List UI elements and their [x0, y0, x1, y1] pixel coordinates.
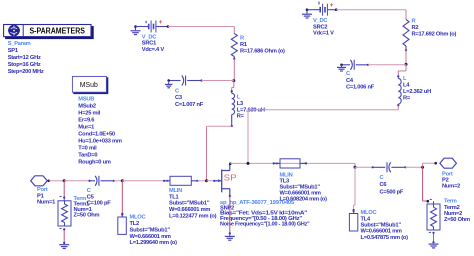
- svg-text:Stop=16 GHz: Stop=16 GHz: [8, 62, 41, 68]
- svg-text:C: C: [346, 71, 350, 77]
- svg-text:L3: L3: [237, 101, 243, 107]
- svg-text:SP1: SP1: [8, 48, 18, 54]
- svg-text:Num=2: Num=2: [442, 183, 460, 189]
- svg-text:C3: C3: [175, 95, 182, 101]
- capacitor C6: [372, 166, 374, 168]
- wire junction to FET gate: [207, 180, 215, 182]
- svg-text:R=17.692 Ohm (o): R=17.692 Ohm (o): [412, 32, 457, 38]
- wire C4 to node: [368, 64, 406, 66]
- inductor L4: [397, 75, 399, 77]
- svg-text:+: +: [159, 19, 163, 26]
- svg-text:Num=2: Num=2: [444, 211, 462, 217]
- microstrip line TL1: [163, 180, 165, 182]
- wire down to Term2: [422, 167, 424, 201]
- svg-text:C: C: [175, 88, 179, 94]
- svg-text:Hu=1.0e+033 mm: Hu=1.0e+033 mm: [78, 138, 122, 144]
- svg-text:C=1.007 nF: C=1.007 nF: [175, 102, 204, 108]
- svg-text:MSUB: MSUB: [78, 96, 94, 102]
- svg-text:TL2: TL2: [130, 221, 140, 227]
- svg-text:R=: R=: [237, 114, 245, 120]
- transistor SNP2 FET symbol: [213, 180, 215, 182]
- svg-text:S-PARAMETERS: S-PARAMETERS: [29, 25, 85, 35]
- svg-text:W=0.666001 mm: W=0.666001 mm: [130, 234, 171, 240]
- svg-text:L: L: [403, 76, 407, 82]
- junction Term2 tap: [421, 166, 424, 169]
- MSub substrate box: [74, 78, 108, 94]
- wire down to TL4: [354, 167, 356, 205]
- svg-text:C=1.006 nF: C=1.006 nF: [346, 85, 375, 91]
- junction gate bias join: [205, 179, 208, 182]
- svg-text:L: L: [237, 95, 241, 101]
- svg-text:L=0.122477 mm (o): L=0.122477 mm (o): [169, 213, 217, 219]
- wire node to L4 with jog: [405, 64, 407, 71]
- svg-text:Start=12 GHz: Start=12 GHz: [8, 55, 41, 61]
- V_DC source SRC2 battery: [306, 8, 309, 11]
- V_DC source SRC1 battery: [134, 25, 137, 28]
- svg-text:Vdc=1 V: Vdc=1 V: [313, 31, 334, 37]
- svg-text:+: +: [330, 2, 334, 9]
- open stub TL2: [121, 213, 123, 215]
- svg-text:TanD=0: TanD=0: [78, 152, 97, 158]
- svg-text:C=100 pF: C=100 pF: [87, 201, 111, 207]
- wire FET drain rail: [229, 162, 232, 165]
- svg-text:R2: R2: [412, 25, 419, 31]
- wire node to L3: [233, 81, 235, 88]
- ground for Term2: [429, 243, 439, 245]
- ground for SRC2: [306, 10, 308, 14]
- terminal Term1: [60, 195, 62, 197]
- svg-text:L=2.362 uH: L=2.362 uH: [403, 89, 431, 95]
- svg-text:W=0.666001 mm: W=0.666001 mm: [169, 207, 210, 213]
- svg-text:Subst="MSub1": Subst="MSub1": [130, 227, 171, 233]
- svg-text:Num=1: Num=1: [37, 200, 55, 206]
- svg-text:MSub2: MSub2: [78, 103, 96, 109]
- svg-text:Z=50 Ohm: Z=50 Ohm: [74, 213, 100, 219]
- port P2: [440, 158, 457, 168]
- svg-text:C: C: [87, 188, 91, 194]
- junction TL2 tap: [121, 179, 124, 182]
- junction Term1 tap: [63, 179, 66, 182]
- svg-text:R1: R1: [240, 42, 247, 48]
- svg-text:H=25 mil: H=25 mil: [78, 110, 100, 116]
- S-PARAMETERS simulation controller box: [6, 27, 94, 39]
- ground for SRC1: [135, 27, 137, 31]
- svg-text:Z=50 Ohm: Z=50 Ohm: [444, 217, 470, 223]
- open stub TL4: [353, 209, 355, 211]
- svg-text:Subst="MSub1": Subst="MSub1": [169, 201, 210, 207]
- wire C6 to output junction: [405, 166, 422, 168]
- svg-text:V_DC: V_DC: [142, 34, 156, 40]
- svg-text:R: R: [412, 18, 416, 24]
- ground for Term1: [59, 244, 69, 246]
- svg-text:Term2: Term2: [444, 205, 460, 211]
- svg-text:P1: P1: [37, 193, 44, 199]
- svg-text:C5: C5: [87, 194, 94, 200]
- svg-text:TL4: TL4: [361, 216, 372, 222]
- svg-text:L=1.299640 mm (o): L=1.299640 mm (o): [130, 240, 178, 246]
- svg-text:C=500 pF: C=500 pF: [380, 189, 404, 195]
- wire C3 to node: [202, 80, 234, 82]
- inductor L3: [231, 90, 233, 92]
- svg-text:Noise Frequency="[1.00 - 18.00: Noise Frequency="[1.00 - 18.00) GHz": [220, 222, 310, 228]
- resistor R1: [231, 34, 237, 57]
- wire SRC2 to R2: [336, 9, 406, 11]
- svg-text:L4: L4: [403, 83, 410, 89]
- svg-text:V_DC: V_DC: [313, 18, 327, 24]
- svg-text:W=0.666001 mm: W=0.666001 mm: [361, 229, 402, 235]
- svg-text:S_Param: S_Param: [8, 41, 31, 47]
- capacitor C4 with ground: [342, 64, 351, 66]
- bias feed wire L4 to drain rail: [397, 105, 399, 110]
- microstrip line TL3: [273, 162, 275, 164]
- wire C5 to TL2 junction: [114, 180, 123, 182]
- ground for FET source: [229, 233, 231, 236]
- wire junction to port P2: [422, 163, 424, 167]
- svg-text:R: R: [240, 35, 244, 41]
- wire down to Term1: [63, 181, 65, 197]
- svg-text:MSub: MSub: [80, 82, 98, 89]
- svg-text:Subst="MSub1": Subst="MSub1": [361, 223, 402, 229]
- svg-text:MLOC: MLOC: [130, 215, 146, 221]
- wire junction to C5: [64, 180, 89, 182]
- svg-text:C: C: [380, 175, 384, 181]
- svg-text:C4: C4: [346, 78, 354, 84]
- wire P1 to junction: [49, 180, 64, 182]
- capacitor C3 with ground: [169, 80, 181, 82]
- svg-text:SRC1: SRC1: [142, 41, 156, 47]
- wire Term2 to ground: [433, 233, 435, 242]
- svg-text:L=0.547875 mm (o): L=0.547875 mm (o): [361, 235, 409, 241]
- wire junction to C6: [355, 166, 373, 168]
- svg-text:TL1: TL1: [169, 194, 179, 200]
- node junction R2/C4/L4: [405, 63, 408, 66]
- svg-text:Vdc=.4 V: Vdc=.4 V: [142, 47, 165, 53]
- svg-text:L=0.608204 mm (o): L=0.608204 mm (o): [280, 197, 328, 203]
- svg-text:T=0 mil: T=0 mil: [78, 145, 97, 151]
- wire TL1 to gate junction: [197, 180, 206, 182]
- wire R1 to node: [233, 59, 235, 81]
- wire R2 to node: [405, 50, 407, 64]
- svg-text:Er=9.6: Er=9.6: [78, 117, 94, 123]
- svg-text:Rough=0 um: Rough=0 um: [78, 159, 111, 165]
- svg-text:SRC2: SRC2: [313, 24, 327, 30]
- capacitor C5: [88, 180, 90, 182]
- wire SRC1 to R1: [168, 26, 234, 28]
- svg-text:Mur=1: Mur=1: [78, 124, 94, 130]
- svg-text:Cond=1.0E+50: Cond=1.0E+50: [78, 131, 115, 137]
- wire FET source to ground: [229, 196, 231, 233]
- resistor R2: [403, 20, 409, 47]
- wire L3 to gate line: [207, 125, 232, 127]
- junction bias feed: [247, 162, 250, 165]
- svg-text:MLOC: MLOC: [361, 210, 377, 216]
- svg-text:SP: SP: [224, 173, 238, 183]
- svg-text:MLIN: MLIN: [169, 188, 182, 194]
- wire TL2 junction to TL1: [122, 180, 164, 182]
- port P1: [31, 176, 48, 186]
- wire TL3 corner down to junction: [354, 163, 356, 167]
- svg-text:Port: Port: [37, 187, 48, 193]
- terminal Term2: [430, 198, 432, 200]
- svg-text:R=: R=: [403, 96, 411, 102]
- svg-text:R=17.686 Ohm (o): R=17.686 Ohm (o): [240, 48, 285, 54]
- svg-text:C6: C6: [380, 182, 387, 188]
- wire down to TL2: [121, 181, 123, 214]
- svg-text:Step=200 MHz: Step=200 MHz: [8, 69, 44, 75]
- svg-text:Term: Term: [444, 199, 457, 205]
- node junction R1/C3/L3: [232, 79, 235, 82]
- wire Term1 to ground: [63, 230, 65, 243]
